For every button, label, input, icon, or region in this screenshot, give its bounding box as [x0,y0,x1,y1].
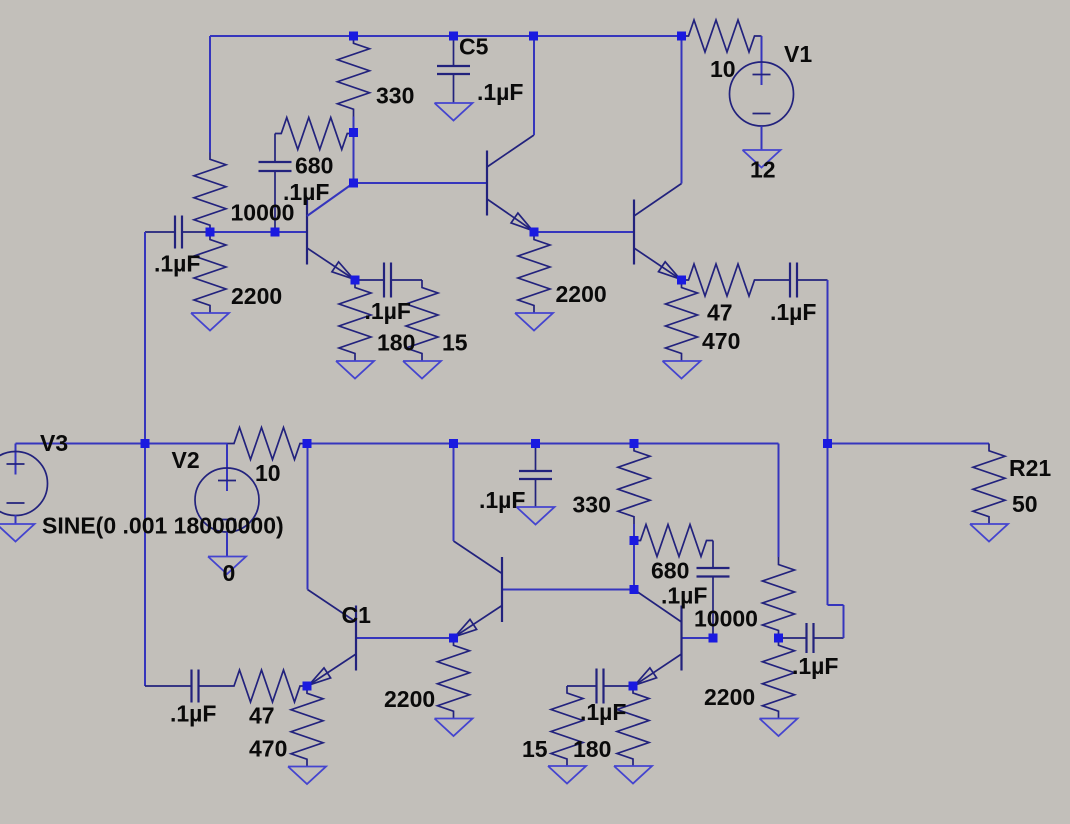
svg-text:C1: C1 [342,602,372,628]
svg-text:10000: 10000 [694,606,758,632]
svg-text:12: 12 [750,157,776,183]
svg-text:180: 180 [573,736,611,762]
svg-text:2200: 2200 [384,686,435,712]
svg-text:.1µF: .1µF [580,699,626,725]
svg-text:.1µF: .1µF [170,701,216,727]
svg-text:R21: R21 [1009,455,1051,481]
svg-text:2200: 2200 [231,283,282,309]
svg-text:0: 0 [223,560,236,586]
svg-text:680: 680 [295,153,333,179]
svg-text:47: 47 [249,703,275,729]
svg-text:.1µF: .1µF [479,487,525,513]
svg-text:SINE(0 .001 18000000): SINE(0 .001 18000000) [42,513,284,539]
svg-text:V1: V1 [784,41,812,67]
svg-text:.1µF: .1µF [477,79,523,105]
svg-text:10000: 10000 [231,200,295,226]
svg-text:.1µF: .1µF [792,653,838,679]
svg-text:330: 330 [573,492,611,518]
svg-text:15: 15 [522,736,548,762]
svg-text:10: 10 [255,460,281,486]
svg-text:680: 680 [651,558,689,584]
svg-text:.1µF: .1µF [770,299,816,325]
svg-text:2200: 2200 [556,281,607,307]
svg-text:47: 47 [707,300,733,326]
svg-text:10: 10 [710,56,736,82]
svg-text:15: 15 [442,330,468,356]
svg-text:.1µF: .1µF [154,251,200,277]
svg-text:180: 180 [377,330,415,356]
svg-text:470: 470 [249,736,287,762]
svg-text:50: 50 [1012,491,1038,517]
svg-text:470: 470 [702,328,740,354]
svg-text:.1µF: .1µF [365,298,411,324]
svg-text:C5: C5 [459,34,489,60]
svg-text:V2: V2 [172,447,200,473]
svg-text:330: 330 [376,83,414,109]
svg-text:V3: V3 [40,430,68,456]
svg-text:2200: 2200 [704,684,755,710]
